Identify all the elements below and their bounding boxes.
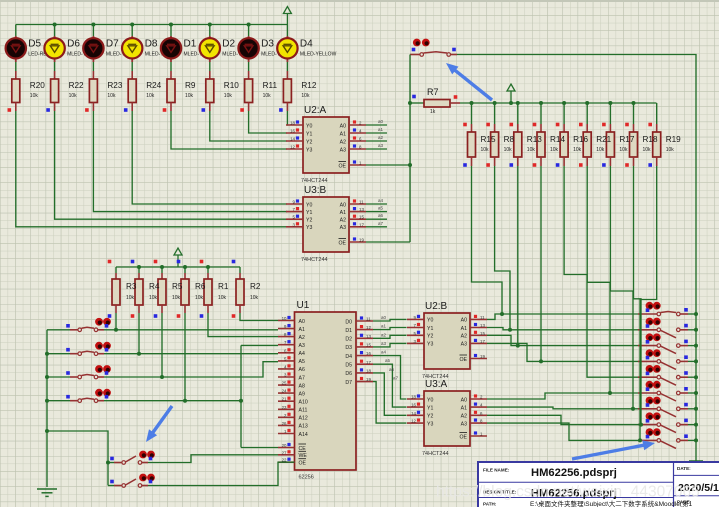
wire SW6 to U1 OE	[148, 462, 295, 485]
svg-text:15: 15	[359, 215, 364, 220]
wire U3:B A3 net stub	[366, 221, 387, 227]
resistor R7	[408, 87, 460, 115]
wire U1 D1 to U2:B Y1	[373, 324, 407, 330]
svg-text:Y2: Y2	[427, 414, 433, 420]
wire right power bus	[460, 101, 657, 105]
svg-text:A1: A1	[340, 210, 346, 216]
wire node A3-CE vertical	[240, 345, 242, 447]
wire SWD2 to right bus	[688, 344, 698, 348]
svg-text:10: 10	[282, 316, 287, 321]
LED D1	[161, 25, 203, 63]
wire R4 to SW2 row	[138, 313, 140, 354]
svg-text:R2: R2	[250, 282, 261, 291]
resistor R14	[533, 103, 545, 167]
wire R21 column to SWD5	[587, 166, 638, 393]
resistor R11 value label	[263, 81, 278, 99]
svg-text:Y1: Y1	[306, 210, 312, 216]
wire SW2 row to U1 A4	[104, 352, 278, 356]
svg-text:10k: 10k	[504, 147, 513, 153]
wire U1 D3 to U2:B Y3	[373, 341, 407, 347]
switch SWD7	[638, 412, 688, 432]
resistor R17	[602, 103, 614, 167]
wire SWD5 to right bus	[688, 391, 698, 395]
wire right bus tick	[689, 460, 703, 462]
svg-text:10k: 10k	[550, 147, 559, 153]
switch SW2	[47, 342, 111, 356]
svg-text:10k: 10k	[301, 93, 310, 99]
resistor R16	[556, 103, 568, 167]
svg-text:R5: R5	[172, 282, 183, 291]
svg-text:D1: D1	[184, 39, 197, 50]
resistor R3 value label	[126, 282, 137, 301]
svg-text:A14: A14	[299, 432, 308, 438]
svg-text:16: 16	[411, 403, 416, 408]
wire R1 to U1 A2	[208, 313, 278, 337]
svg-text:a0: a0	[378, 119, 384, 124]
svg-text:74HCT244: 74HCT244	[422, 451, 449, 457]
watermark	[436, 484, 700, 501]
wire R18 column to SWD7	[634, 166, 642, 425]
svg-text:R23: R23	[107, 81, 122, 90]
LED D4	[277, 25, 336, 63]
svg-text:A3: A3	[340, 225, 346, 231]
wire SW4 row	[104, 399, 243, 403]
svg-text:23: 23	[282, 405, 287, 410]
svg-text:U1: U1	[297, 300, 310, 311]
svg-text:A1: A1	[461, 326, 467, 332]
svg-text:R14: R14	[550, 135, 565, 144]
svg-text:74HCT244: 74HCT244	[301, 178, 328, 184]
svg-text:D5: D5	[28, 39, 41, 50]
svg-text:14: 14	[411, 411, 416, 416]
svg-text:R19: R19	[666, 135, 681, 144]
svg-text:13: 13	[480, 323, 485, 328]
wire U3:B A2 net stub	[366, 213, 387, 219]
wire top-right switch to right bus	[457, 55, 696, 104]
resistor R16 value label	[573, 135, 588, 153]
wire R11 to U2:A Y1	[249, 111, 287, 133]
svg-text:R11: R11	[263, 81, 278, 90]
svg-text:Y3: Y3	[306, 147, 312, 153]
wire U3:A A0 to SWD5 row	[487, 391, 612, 399]
op-amp U2:A buffer 74HCT244	[286, 105, 366, 184]
svg-text:10k: 10k	[146, 93, 155, 99]
svg-text:a5: a5	[385, 358, 391, 363]
power terminal (right)	[507, 84, 515, 105]
svg-text:D3: D3	[345, 345, 352, 351]
svg-text:A0: A0	[340, 202, 346, 208]
svg-text:Y2: Y2	[306, 218, 312, 224]
svg-text:R17: R17	[619, 135, 634, 144]
wire U3:B A0 net stub	[366, 198, 387, 204]
title block	[478, 462, 719, 507]
svg-text:a3: a3	[381, 341, 387, 346]
svg-text:14: 14	[290, 137, 295, 142]
svg-text:25: 25	[282, 381, 287, 386]
svg-text:A6: A6	[299, 367, 305, 373]
resistor R24 value label	[146, 81, 161, 99]
svg-text:12: 12	[411, 419, 416, 424]
op-amp U3:B buffer 74HCT244	[286, 185, 366, 263]
svg-text:10k: 10k	[69, 93, 78, 99]
svg-text:D2: D2	[345, 337, 352, 343]
resistor R13 value label	[527, 135, 542, 153]
op-amp U3:A buffer 74HCT244	[407, 379, 487, 457]
wire middle power bus	[116, 265, 240, 269]
svg-text:FILE NAME:: FILE NAME:	[483, 468, 510, 473]
svg-text:U3:B: U3:B	[304, 185, 327, 196]
resistor R4 value label	[149, 282, 160, 301]
svg-text:OE: OE	[460, 357, 468, 363]
svg-text:19: 19	[359, 238, 364, 243]
resistor R20	[8, 62, 20, 112]
svg-text:A1: A1	[299, 327, 305, 333]
wire SW5 to U1 WE	[148, 455, 278, 463]
svg-text:R24: R24	[146, 81, 161, 90]
wire R10 to U2:A Y2	[210, 111, 287, 141]
annotation arrow 1	[446, 63, 492, 100]
LED D2	[200, 25, 242, 63]
svg-text:Y0: Y0	[427, 318, 433, 324]
svg-text:A0: A0	[340, 123, 346, 129]
svg-text:10k: 10k	[185, 93, 194, 99]
wire R6 to SW4 row	[184, 313, 186, 401]
ground	[37, 489, 57, 496]
svg-text:A3: A3	[461, 342, 467, 348]
svg-text:19: 19	[480, 354, 485, 359]
wire SW3 row to U1 A5	[104, 362, 278, 379]
svg-text:A9: A9	[299, 391, 305, 397]
svg-text:10k: 10k	[172, 295, 181, 301]
svg-text:10k: 10k	[596, 147, 605, 153]
svg-text:R3: R3	[126, 282, 137, 291]
svg-text:R22: R22	[69, 81, 84, 90]
svg-text:OE: OE	[339, 163, 347, 169]
resistor R23	[85, 62, 97, 112]
svg-text:10k: 10k	[107, 93, 116, 99]
svg-text:a1: a1	[381, 324, 387, 329]
svg-text:MLED-YELLOW: MLED-YELLOW	[300, 52, 337, 58]
wire U2:A A1 net stub	[366, 127, 387, 133]
wire U3:A A1 to SWD6 row	[487, 407, 635, 411]
svg-text:A0: A0	[461, 318, 467, 324]
switch SWD6	[638, 397, 688, 417]
wire R5 to SW3 row	[161, 313, 163, 377]
svg-text:A8: A8	[299, 383, 305, 389]
wire R3 to SW1 row	[115, 313, 117, 330]
svg-text:Y0: Y0	[306, 202, 312, 208]
switch SW5 (WE)	[108, 451, 155, 465]
resistor R19	[648, 103, 660, 167]
LED D3	[238, 25, 280, 63]
svg-text:11: 11	[359, 200, 364, 205]
svg-text:Y1: Y1	[427, 405, 433, 411]
svg-text:R1: R1	[218, 282, 229, 291]
wire R19 column to SWD8	[638, 166, 657, 440]
resistor R17 value label	[619, 135, 634, 153]
svg-text:U2:B: U2:B	[425, 301, 448, 312]
svg-text:R20: R20	[30, 81, 45, 90]
svg-text:A10: A10	[299, 400, 308, 406]
resistor R1	[200, 260, 212, 318]
svg-text:A1: A1	[340, 131, 346, 137]
resistor R14 value label	[550, 135, 565, 153]
svg-text:10k: 10k	[195, 295, 204, 301]
svg-text:https://blog.csdn.net/weixin_4: https://blog.csdn.net/weixin_44307065	[436, 484, 700, 501]
resistor R8	[486, 103, 498, 167]
svg-text:a6: a6	[389, 367, 395, 372]
svg-text:10k: 10k	[218, 295, 227, 301]
svg-text:D4: D4	[300, 39, 313, 50]
wire R20 to U3:B Y3	[16, 111, 287, 227]
resistor R23 value label	[107, 81, 122, 99]
wire R12 to U2:A Y0	[286, 111, 288, 125]
LED D8	[122, 25, 164, 63]
wire R13 column to SWD2	[518, 166, 638, 346]
svg-text:17: 17	[359, 222, 364, 227]
switch SW4	[47, 389, 111, 403]
svg-text:a5: a5	[378, 206, 384, 211]
svg-text:R4: R4	[149, 282, 160, 291]
wire SWD7 to right bus	[688, 423, 698, 427]
svg-text:a7: a7	[393, 376, 399, 381]
switch SW6 (OE)	[108, 474, 155, 488]
svg-text:A3: A3	[461, 421, 467, 427]
switch SWD8	[638, 428, 688, 448]
wire U1 D6 to U3:A Y2	[373, 367, 407, 415]
resistor R15	[463, 103, 475, 167]
wire U2:B A1 to SWD1 row	[487, 328, 512, 332]
wire OE node vertical	[409, 103, 411, 242]
resistor R5	[154, 260, 166, 318]
svg-text:24: 24	[282, 389, 287, 394]
svg-text:a2: a2	[381, 332, 387, 337]
svg-text:Y3: Y3	[306, 225, 312, 231]
wire R24 to U3:B Y0	[132, 111, 287, 204]
svg-text:D4: D4	[345, 354, 352, 360]
svg-text:1k: 1k	[430, 109, 436, 115]
svg-text:D1: D1	[345, 328, 352, 334]
svg-text:A13: A13	[299, 424, 308, 430]
svg-text:OE: OE	[460, 434, 468, 440]
svg-text:DATE:: DATE:	[677, 466, 691, 471]
svg-text:A2: A2	[461, 414, 467, 420]
wire U2:B A0 to SWD0 row	[487, 312, 504, 319]
wire U2:B A2 to SWD2 row	[487, 335, 520, 347]
resistor R8 value label	[504, 135, 515, 153]
svg-text:R13: R13	[527, 135, 542, 144]
switch SWD5	[638, 381, 688, 401]
svg-text:A3: A3	[299, 343, 305, 349]
switch SWD0	[638, 302, 688, 316]
wire U3:B A1 net stub	[366, 206, 387, 212]
wire U1 D2 to U2:B Y2	[373, 332, 407, 338]
svg-text:R7: R7	[427, 87, 439, 97]
svg-text:D2: D2	[222, 39, 235, 50]
resistor R18 value label	[643, 135, 658, 153]
svg-text:10k: 10k	[643, 147, 652, 153]
svg-text:A2: A2	[461, 334, 467, 340]
svg-text:10k: 10k	[481, 147, 490, 153]
power terminal (middle)	[174, 248, 182, 267]
svg-text:12: 12	[290, 145, 295, 150]
svg-text:10k: 10k	[149, 295, 158, 301]
svg-text:A0: A0	[299, 319, 305, 325]
resistor R9 value label	[185, 81, 196, 99]
resistor R20 value label	[30, 81, 45, 99]
svg-text:Y2: Y2	[427, 334, 433, 340]
wire U2:A OE to node	[366, 163, 412, 167]
power terminal (top)	[283, 7, 291, 25]
resistor R10	[202, 62, 214, 112]
svg-text:21: 21	[282, 397, 287, 402]
resistor R13	[510, 103, 522, 167]
svg-text:15: 15	[366, 342, 371, 347]
svg-text:10k: 10k	[224, 93, 233, 99]
wire U1 D4 to U3:A Y0	[373, 350, 407, 399]
resistor R9	[163, 62, 175, 112]
wire R16 column to SWD4	[564, 166, 638, 377]
wire R22 to U3:B Y2	[55, 111, 287, 219]
svg-text:18: 18	[290, 121, 295, 126]
svg-text:R10: R10	[224, 81, 239, 90]
svg-text:A5: A5	[299, 359, 305, 365]
svg-text:OE: OE	[299, 461, 307, 467]
resistor R6	[177, 260, 189, 318]
wire R9 to U2:A Y3	[171, 111, 287, 149]
wire SWD4 to right bus	[688, 375, 698, 379]
svg-text:10k: 10k	[250, 295, 259, 301]
svg-text:a7: a7	[378, 221, 384, 226]
wire SWD3 to right bus	[688, 359, 698, 363]
svg-text:17: 17	[480, 339, 485, 344]
switch SWD4	[638, 365, 688, 385]
wire U2:A A3 net stub	[366, 143, 387, 149]
switch SWD3	[638, 349, 688, 369]
wire U3:A A2 to SWD7 row	[487, 415, 643, 426]
LED D6	[44, 25, 86, 63]
wire SWD0 to right bus	[688, 312, 698, 316]
resistor R21 value label	[596, 135, 611, 153]
svg-text:WE: WE	[299, 453, 308, 459]
resistor R21	[579, 103, 591, 167]
svg-text:a6: a6	[378, 213, 384, 218]
switch SW1	[47, 318, 111, 332]
wire U1 D7 to U3:A Y3	[373, 376, 407, 424]
svg-text:OE: OE	[339, 240, 347, 246]
op-amp U2:B buffer 74HCT244	[407, 301, 487, 380]
svg-text:a3: a3	[378, 143, 384, 148]
resistor R24	[124, 62, 136, 112]
svg-text:R16: R16	[573, 135, 588, 144]
svg-text:10k: 10k	[527, 147, 536, 153]
wire R23 to U3:B Y1	[93, 111, 287, 212]
svg-text:R18: R18	[643, 135, 658, 144]
resistor R15 value label	[481, 135, 496, 153]
resistor R22	[46, 62, 58, 112]
switch SW3	[47, 365, 111, 379]
svg-text:U3:A: U3:A	[425, 379, 448, 390]
resistor R2	[232, 260, 244, 318]
wire right vertical bus	[695, 103, 697, 461]
wire U3:B OE to node	[366, 241, 410, 243]
svg-text:Y0: Y0	[427, 397, 433, 403]
wire ground bus branch to lower switches	[47, 431, 110, 486]
svg-text:Y1: Y1	[306, 131, 312, 137]
svg-text:13: 13	[366, 334, 371, 339]
svg-text:10k: 10k	[30, 93, 39, 99]
svg-text:D5: D5	[345, 363, 352, 369]
svg-text:Y3: Y3	[427, 421, 433, 427]
svg-text:U2:A: U2:A	[304, 105, 327, 116]
svg-text:D3: D3	[261, 39, 274, 50]
svg-text:R8: R8	[504, 135, 515, 144]
LED D7	[83, 25, 125, 63]
svg-text:HM62256.pdsprj: HM62256.pdsprj	[531, 467, 617, 479]
svg-text:A2: A2	[340, 218, 346, 224]
svg-text:A7: A7	[299, 375, 305, 381]
resistor R22 value label	[69, 81, 84, 99]
svg-text:Y3: Y3	[427, 342, 433, 348]
wire R15 column to SWD0	[472, 166, 639, 314]
svg-text:A4: A4	[299, 351, 305, 357]
wire U2:A A2 net stub	[366, 135, 387, 141]
svg-text:19: 19	[366, 377, 371, 382]
svg-text:13: 13	[359, 207, 364, 212]
wire R17 column to SWD6	[610, 166, 638, 409]
svg-text:a0: a0	[381, 315, 387, 320]
svg-text:10k: 10k	[619, 147, 628, 153]
annotation arrow 3	[572, 440, 655, 459]
svg-text:a2: a2	[378, 135, 384, 140]
resistor R4	[131, 260, 143, 318]
svg-text:D6: D6	[345, 371, 352, 377]
svg-text:A11: A11	[299, 408, 308, 414]
svg-text:11: 11	[480, 315, 485, 320]
resistor R19 value label	[666, 135, 681, 153]
svg-text:17: 17	[366, 360, 371, 365]
svg-text:62256: 62256	[299, 475, 314, 481]
wire R2 to U1 A0	[240, 313, 278, 321]
svg-text:R21: R21	[596, 135, 611, 144]
svg-text:R9: R9	[185, 81, 196, 90]
resistor R12 value label	[301, 81, 316, 99]
svg-text:Y1: Y1	[427, 326, 433, 332]
resistor R5 value label	[172, 282, 183, 301]
svg-text:11: 11	[366, 317, 371, 322]
svg-text:R6: R6	[195, 282, 206, 291]
switch SWD2	[638, 333, 688, 353]
resistor R11	[240, 62, 252, 112]
svg-text:26: 26	[282, 421, 287, 426]
svg-text:D8: D8	[145, 39, 158, 50]
svg-text:D6: D6	[67, 39, 80, 50]
svg-text:16: 16	[290, 129, 295, 134]
LED D5	[6, 25, 48, 63]
wire U3:A A3 to SWD8 row	[487, 423, 642, 442]
svg-text:Y2: Y2	[306, 139, 312, 145]
resistor R3	[108, 260, 120, 318]
svg-text:a1: a1	[378, 127, 384, 132]
annotation arrow 2	[146, 406, 172, 442]
svg-text:27: 27	[282, 450, 287, 455]
svg-text:10k: 10k	[263, 93, 272, 99]
svg-text:A2: A2	[299, 335, 305, 341]
svg-text:15: 15	[480, 331, 485, 336]
svg-text:D7: D7	[106, 39, 119, 50]
switch SWD1	[638, 318, 688, 338]
wire U1 D5 to U3:A Y1	[373, 358, 407, 407]
